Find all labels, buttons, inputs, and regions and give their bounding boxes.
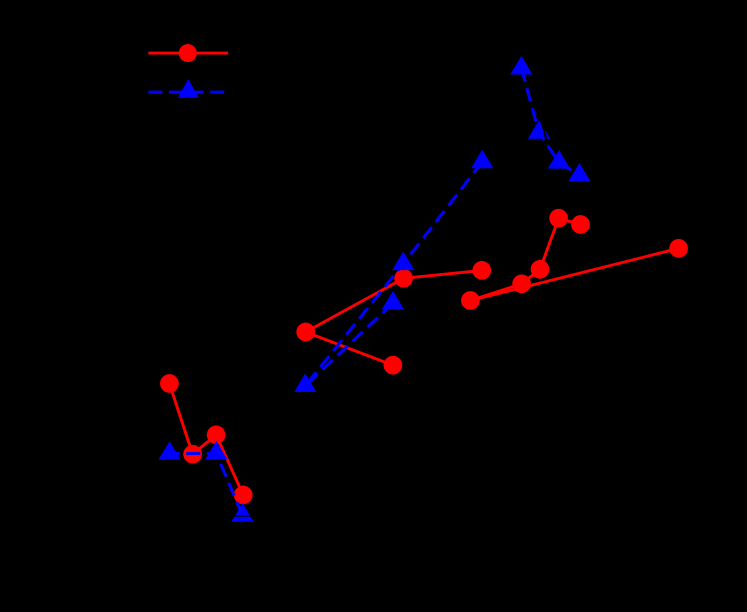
node B4: [568, 163, 590, 182]
node R10: [512, 274, 531, 293]
wire red segment C3: [540, 218, 559, 269]
node R11: [531, 260, 550, 279]
node R3: [207, 426, 226, 445]
node R13: [571, 215, 590, 234]
node B9: [158, 441, 180, 460]
node R8: [472, 261, 491, 280]
node R7: [394, 269, 413, 288]
wire red segment C1: [470, 284, 521, 301]
node B7: [382, 291, 404, 310]
node R9: [461, 291, 480, 310]
blue series markers (triangle data point at centroid): [158, 56, 590, 522]
red series markers: [160, 209, 688, 505]
wire red segment A2: [193, 435, 217, 454]
wire red segment A3: [216, 435, 243, 495]
node R2: [183, 445, 202, 464]
wire red segment A1: [169, 384, 192, 455]
wire blue chain D (B1-B2-B3-B4): [521, 68, 579, 175]
wire red segment C2: [522, 269, 540, 283]
node B2: [528, 120, 550, 139]
legend red entry line: [148, 52, 228, 55]
node R4: [234, 486, 253, 505]
wire red segment B3: [404, 270, 482, 278]
wire red segment B2: [306, 278, 404, 332]
blue dashed series lines: [170, 68, 580, 515]
node R12: [549, 209, 568, 228]
dark cut across triangle B2: [542, 122, 547, 142]
wire red segment B1: [306, 332, 393, 365]
legend red entry marker: [179, 44, 197, 62]
legend blue entry marker: [178, 79, 199, 98]
node B6: [392, 252, 414, 271]
node B10: [205, 441, 227, 460]
node R14: [669, 239, 688, 258]
node B1: [510, 56, 532, 75]
wire red long segment C5: [470, 248, 678, 300]
node B11: [231, 503, 253, 522]
node R5: [296, 323, 315, 342]
legend blue entry dashed line: [148, 91, 225, 94]
red series lines: [169, 218, 678, 495]
node B5: [471, 150, 493, 169]
wire red segment C4: [559, 218, 581, 224]
node B8: [294, 373, 316, 392]
wire blue chain F (B9-B10-B11): [170, 453, 243, 515]
wire blue chain E (B5-B6-B8-B7): [305, 162, 482, 386]
node R6: [384, 356, 403, 375]
node B3: [548, 150, 570, 169]
node R1: [160, 374, 179, 393]
dark cut across triangle B11 base: [234, 515, 251, 517]
